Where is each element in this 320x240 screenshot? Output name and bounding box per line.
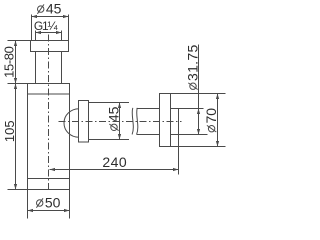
pipe end / 240 extension line — [178, 109, 180, 175]
horizontal centerline — [59, 121, 182, 123]
dimension line Ø45 top — [32, 16, 69, 18]
svg-text:105: 105 — [2, 120, 17, 142]
bottle joint line — [28, 178, 70, 180]
dimension line Ø70 — [217, 94, 219, 147]
extension line Ø45 right — [68, 15, 70, 41]
extension line at bottle bottom (105) — [8, 189, 28, 191]
svg-text:70: 70 — [203, 108, 219, 124]
wall flange — [160, 94, 171, 147]
arrowheads 240 — [50, 168, 179, 171]
svg-text:240: 240 — [102, 154, 127, 170]
svg-text:15-80: 15-80 — [1, 46, 16, 77]
elbow dome arc — [64, 109, 79, 138]
dimension label Ø70 (rotated) — [203, 108, 219, 132]
arrowheads Ø45 top — [32, 15, 69, 18]
dimension label Ø50 — [36, 195, 60, 211]
top nut — [31, 41, 69, 52]
svg-text:45: 45 — [105, 106, 121, 122]
pipe break squiggle 1 — [132, 108, 133, 134]
dimension label Ø31.75 (rotated) — [184, 44, 200, 89]
arrowheads 15-80 — [14, 41, 17, 84]
flange bottom / Ø70 extension line — [160, 146, 226, 148]
extension line Ø50 left — [27, 190, 29, 219]
svg-text:G1¼: G1¼ — [34, 19, 59, 33]
extension line at flange top (shared) — [8, 83, 28, 85]
outlet pipe Ø45 sleeve top — [89, 102, 130, 104]
outlet pipe Ø45 sleeve bottom — [89, 139, 130, 141]
inlet pipe — [36, 52, 62, 84]
extension line G1¼ left — [35, 31, 37, 41]
outlet pipe Ø31.75 bottom — [137, 134, 208, 136]
dimension line G1¼ — [36, 32, 62, 34]
extension line G1¼ right — [61, 31, 63, 41]
arrowheads Ø45 pipe — [118, 103, 121, 140]
svg-text:45: 45 — [46, 1, 62, 17]
side nut — [79, 101, 89, 143]
dimension label Ø45 top — [37, 1, 61, 17]
dimension line Ø50 — [28, 210, 70, 212]
svg-text:31.75: 31.75 — [184, 44, 200, 81]
arrowheads Ø50 — [28, 209, 70, 212]
svg-text:50: 50 — [45, 195, 61, 211]
extension line Ø45 left — [31, 15, 33, 41]
pipe break squiggle 2 — [137, 108, 138, 134]
dimension line 105 — [15, 84, 17, 190]
extension line Ø50 right — [69, 190, 71, 219]
dimension line Ø31.75 — [198, 45, 200, 135]
arrowheads G1¼ — [36, 31, 62, 34]
arrowheads Ø70 — [216, 94, 219, 147]
outlet pipe Ø31.75 top — [137, 108, 204, 110]
bottle cap flange — [28, 84, 70, 95]
dimension line 15-80 — [15, 41, 17, 84]
dimension label Ø45 pipe (rotated) — [105, 106, 121, 130]
bottle body — [28, 94, 70, 190]
arrowheads 105 — [14, 84, 17, 190]
flange top / Ø70 extension line — [160, 93, 226, 95]
arrowheads Ø31.75 — [197, 109, 200, 135]
vertical centerline — [48, 35, 50, 192]
dimension line 240 — [50, 169, 179, 171]
dimension line Ø45 pipe — [119, 103, 121, 140]
extension line at nut top (15-80) — [8, 40, 31, 42]
